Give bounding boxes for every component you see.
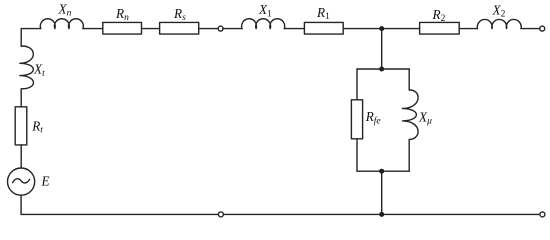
wire Rt to source xyxy=(20,145,22,168)
resistor Rt xyxy=(15,107,27,145)
source E sine symbol xyxy=(13,179,30,183)
resistor R1 xyxy=(304,22,343,34)
svg-text:X2: X2 xyxy=(492,2,506,19)
node A (junction dot top) xyxy=(379,26,384,31)
resistor Rs xyxy=(160,22,199,34)
terminal (open circle) bottom middle xyxy=(218,212,223,217)
inductor Xn xyxy=(40,19,83,29)
svg-text:R1: R1 xyxy=(316,5,330,22)
svg-text:Rn: Rn xyxy=(115,6,129,23)
wire shunt left drop xyxy=(356,69,358,100)
svg-text:Rt: Rt xyxy=(31,118,43,135)
terminal (open circle) top middle xyxy=(218,26,223,31)
svg-text:E: E xyxy=(41,174,50,189)
wire Rn to Rs xyxy=(142,28,160,30)
wire R1 to R2 through node xyxy=(343,28,419,30)
wire Rs to terminal xyxy=(199,28,218,30)
wire node A down to shunt top xyxy=(381,29,383,69)
inductor X1 xyxy=(242,19,285,29)
wire X2 to right terminal xyxy=(521,28,540,30)
wire top-left segment xyxy=(21,28,41,30)
wire source to bottom rail xyxy=(20,195,22,214)
inductor Xmu xyxy=(403,90,419,140)
svg-text:Rs: Rs xyxy=(173,6,186,23)
wire Xn to Rn xyxy=(83,28,103,30)
wire Rfe to bottom bar xyxy=(356,139,358,171)
wire shunt bottom bar xyxy=(357,170,409,172)
svg-text:Xμ: Xμ xyxy=(418,110,432,127)
wire X1 to R1 xyxy=(284,28,304,30)
svg-text:X1: X1 xyxy=(258,2,272,19)
wire terminal to X1 xyxy=(223,28,242,30)
node shunt bottom (junction dot) xyxy=(379,169,384,174)
inductor X2 xyxy=(477,19,521,28)
wire Xt to Rt xyxy=(20,89,22,107)
svg-text:Rfe: Rfe xyxy=(365,109,381,126)
wire R2 to X2 xyxy=(459,28,477,30)
wire bottom rail left xyxy=(21,213,218,215)
terminal (open circle) bottom right xyxy=(540,212,545,217)
node B (junction dot bottom) xyxy=(379,212,384,217)
wire shunt bottom to rail xyxy=(381,171,383,214)
svg-text:Xn: Xn xyxy=(58,1,72,18)
wire shunt right drop xyxy=(408,69,410,90)
svg-text:R2: R2 xyxy=(432,7,446,24)
node shunt top (junction dot) xyxy=(379,67,384,72)
inductor Xt xyxy=(20,46,34,89)
wire Xmu to bottom bar xyxy=(408,140,410,172)
wire shunt top bar xyxy=(357,68,409,70)
resistor Rn xyxy=(103,22,142,34)
wire left rail upper xyxy=(20,29,22,47)
source E circle xyxy=(8,168,35,195)
wire bottom rail right xyxy=(223,213,540,215)
resistor Rfe xyxy=(351,100,362,139)
resistor R2 xyxy=(420,22,460,34)
terminal (open circle) top right xyxy=(540,26,545,31)
svg-text:Xt: Xt xyxy=(33,62,45,79)
